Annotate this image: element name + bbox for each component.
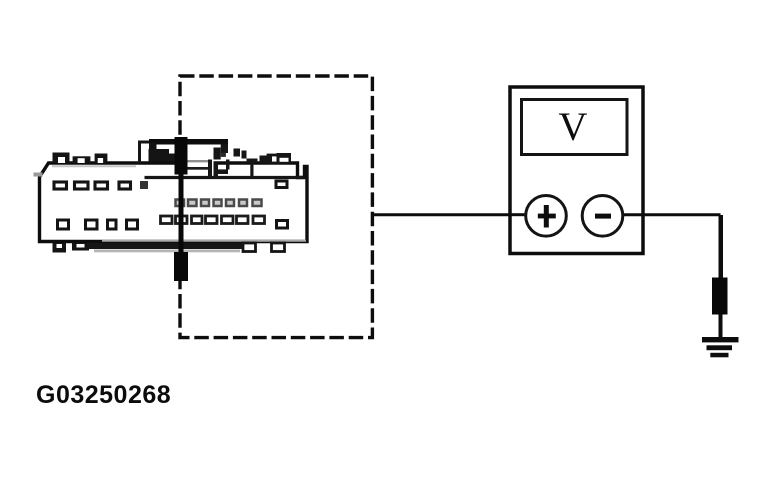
bottom tab right 2 [272, 243, 285, 252]
wire: box to voltmeter [372, 213, 527, 216]
wire stubs at terminals [510, 213, 526, 216]
latch top bar [149, 139, 228, 145]
connector top tab 1 [53, 153, 70, 164]
ground lead [719, 314, 723, 338]
svg-text:V: V [559, 104, 588, 149]
pin right upper [276, 181, 287, 188]
left edge nub [34, 173, 43, 177]
bottom tab right 1 [243, 243, 256, 252]
dashed harness box [180, 76, 372, 338]
top edge ghost line [52, 165, 136, 167]
pin row 1 (upper left) [54, 182, 131, 189]
pin right lower [277, 221, 288, 229]
minus terminal [582, 196, 623, 237]
ground symbol [702, 337, 739, 357]
bottom tab left 2 [72, 243, 89, 251]
ground probe terminal [712, 278, 728, 315]
connector top tab 3 [95, 154, 108, 164]
probe terminal upper [175, 137, 188, 175]
connector C1 body [40, 163, 308, 242]
figure id label [36, 381, 171, 410]
connector bottom heavy rail [82, 243, 245, 249]
voltmeter body [510, 87, 643, 254]
latch housing [140, 139, 304, 179]
connector top-right tab [268, 155, 281, 163]
latch left blocks [149, 149, 170, 162]
plus terminal [526, 196, 567, 237]
voltmeter display [522, 100, 628, 155]
probe wire through connector [179, 174, 184, 253]
pin behind latch [140, 181, 148, 189]
ground drop wire [719, 215, 724, 278]
connector bottom inner gray line [102, 240, 306, 242]
connector top tab 2 [73, 156, 91, 163]
probe terminal lower [174, 252, 188, 281]
pin row C (lower right) [161, 216, 265, 224]
pin row 2 (lower left) [58, 220, 138, 229]
bottom tab left 1 [53, 243, 67, 253]
pin row B (gray small squares) [176, 200, 262, 207]
